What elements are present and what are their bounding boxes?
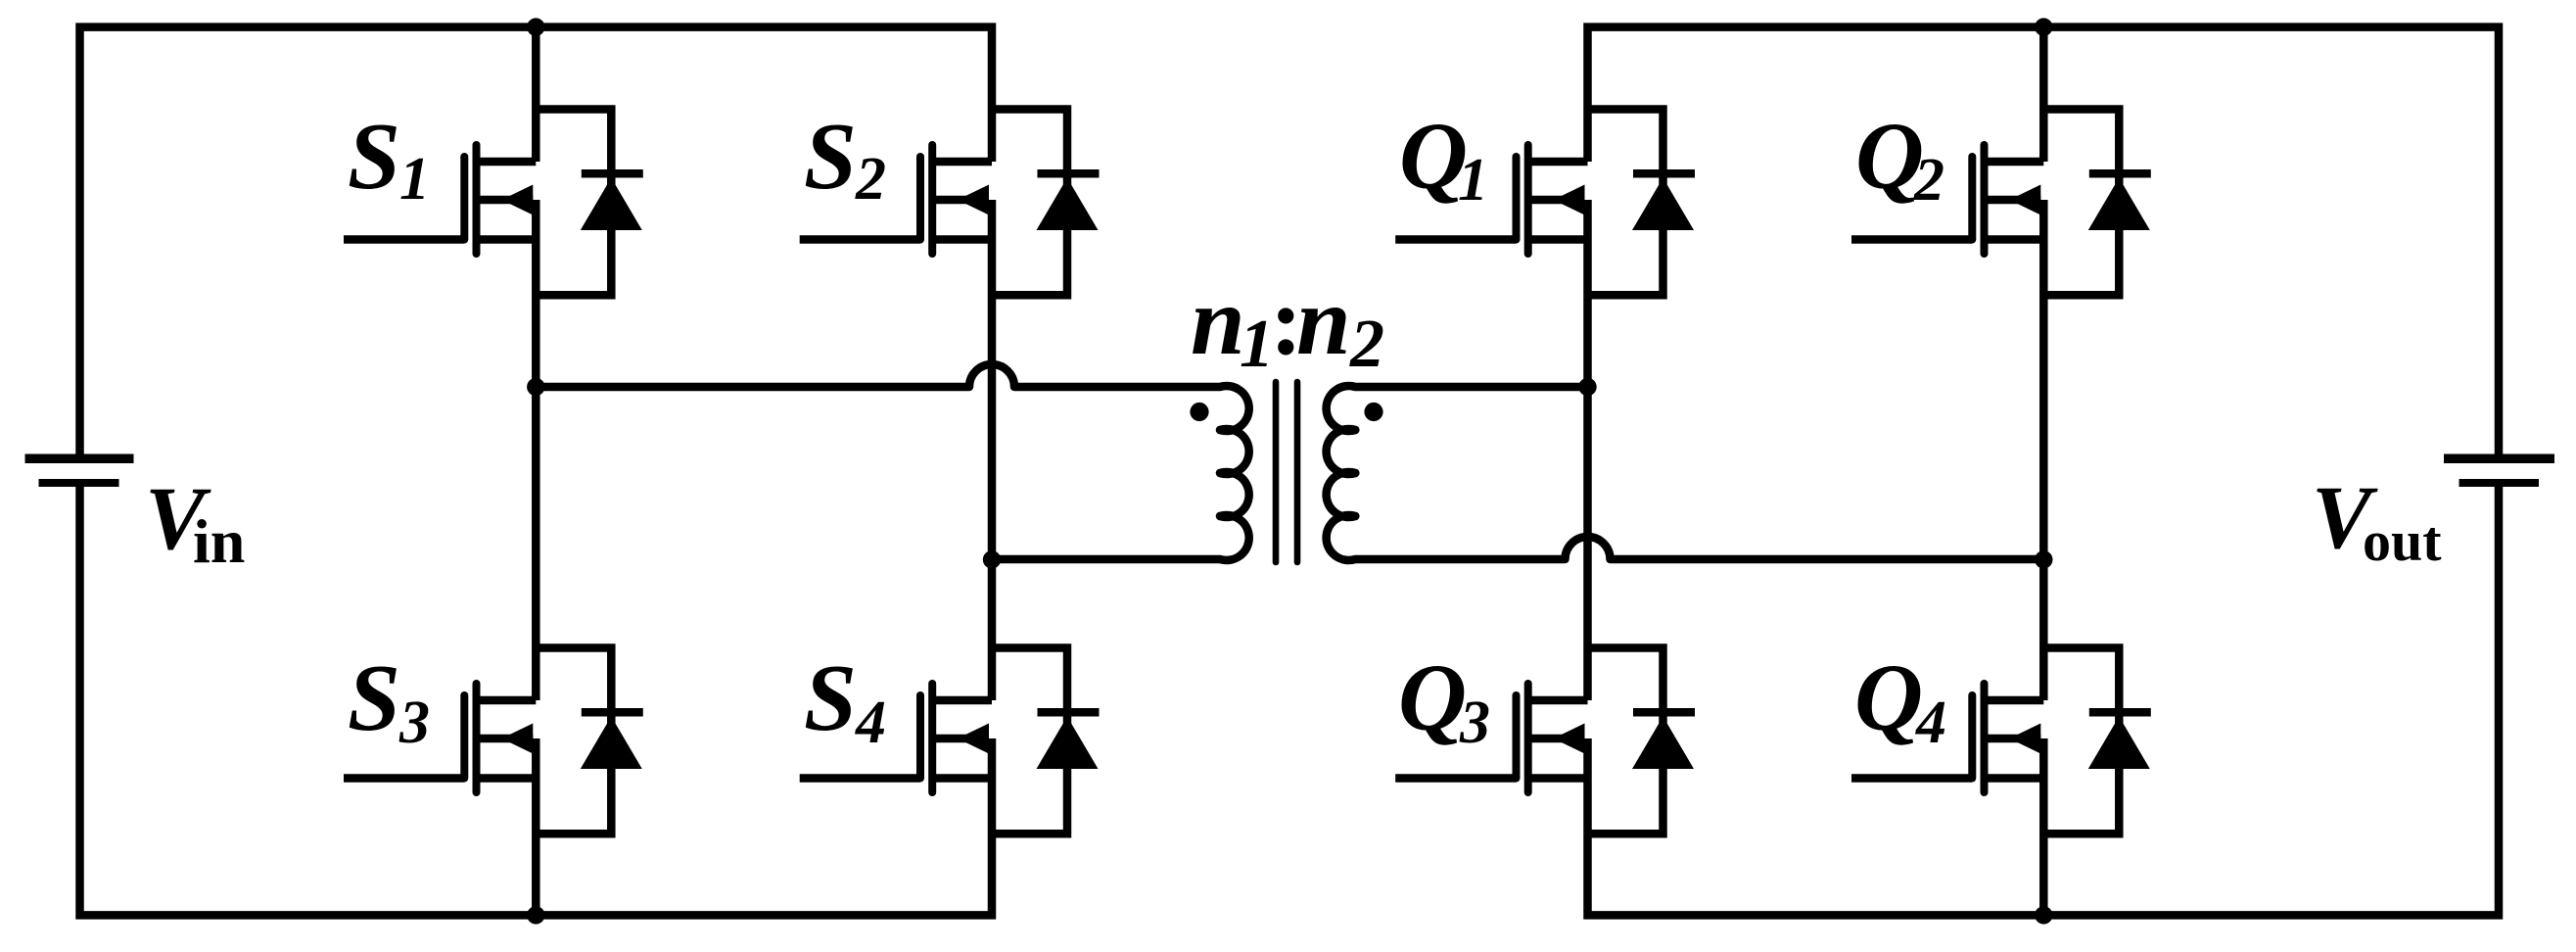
node B junction (S2-S4 midpoint) bbox=[983, 550, 1001, 568]
svg-text:S: S bbox=[804, 104, 857, 209]
wire: right outer loop top (Vout+ rail: Q1-leg top, top bus, right vertical) bbox=[1588, 27, 2500, 458]
wire: left outer loop top (Vin+ rail: left vertical, top bus, S2-leg top) bbox=[80, 27, 993, 458]
transformer T1 secondary winding (with wire hop over Q1 leg) bbox=[1327, 386, 2044, 560]
svg-text:1: 1 bbox=[1240, 307, 1274, 382]
svg-text:2: 2 bbox=[855, 146, 886, 213]
wire: right outer loop bottom (Vout- rail: Q3-leg bottom, bottom bus, right vertical) bbox=[1588, 483, 2500, 915]
transformer T1 primary dot bbox=[1190, 403, 1208, 421]
transistor Q1 (MOSFET) bbox=[1395, 145, 1587, 254]
label Q1 bbox=[1399, 104, 1488, 214]
transformer T1 secondary dot bbox=[1364, 403, 1382, 421]
node A junction (S1-S3 midpoint) bbox=[527, 378, 544, 396]
transformer T1 core bbox=[1276, 382, 1297, 562]
svg-text:in: in bbox=[193, 506, 245, 576]
transistor S2 (MOSFET) bbox=[800, 145, 992, 254]
svg-text:S: S bbox=[348, 104, 400, 209]
svg-text:2: 2 bbox=[1349, 307, 1384, 382]
svg-text:3: 3 bbox=[1459, 690, 1490, 756]
label Vin bbox=[145, 468, 245, 576]
svg-text:3: 3 bbox=[398, 690, 430, 756]
body diode of Q4 bbox=[2043, 648, 2151, 834]
label n1:n2 (turns ratio) bbox=[1191, 266, 1384, 382]
wire: Q4 leg bottom segment bbox=[2039, 738, 2048, 915]
body diode of Q2 bbox=[2043, 110, 2151, 296]
svg-text:Q: Q bbox=[1854, 645, 1923, 750]
svg-text:out: out bbox=[2363, 509, 2442, 573]
transistor Q2 (MOSFET) bbox=[1851, 145, 2043, 254]
label Q4 bbox=[1854, 645, 1946, 756]
label S2 bbox=[804, 104, 886, 213]
svg-text:S: S bbox=[348, 645, 400, 750]
svg-text:1: 1 bbox=[1458, 147, 1488, 214]
svg-text:1: 1 bbox=[399, 146, 430, 213]
node: S1 leg / top bus bbox=[527, 18, 544, 35]
label S1 bbox=[348, 104, 430, 213]
body diode of Q3 bbox=[1588, 648, 1696, 834]
svg-text:2: 2 bbox=[1913, 147, 1944, 214]
wire: Q2-Q4 leg middle segment (node D) bbox=[2039, 200, 2048, 700]
wire: Q1-Q3 leg middle segment (node C) bbox=[1583, 200, 1592, 700]
label S3 bbox=[348, 645, 430, 756]
label Q3 bbox=[1398, 645, 1490, 756]
svg-text:4: 4 bbox=[1915, 690, 1946, 756]
node: Q2 leg / top bus bbox=[2035, 18, 2052, 35]
wire: S2-S4 leg middle segment (node B) bbox=[988, 200, 997, 700]
node C junction (Q1-Q3 midpoint) bbox=[1578, 378, 1596, 396]
transistor S3 (MOSFET) bbox=[344, 684, 536, 792]
transistor Q3 (MOSFET) bbox=[1395, 684, 1587, 792]
label Vout bbox=[2312, 467, 2442, 573]
node: S3 leg / bottom bus bbox=[527, 906, 544, 924]
svg-text:n: n bbox=[1296, 266, 1351, 375]
transistor S1 (MOSFET) bbox=[344, 145, 536, 254]
transistor S4 (MOSFET) bbox=[800, 684, 992, 792]
label Q2 bbox=[1855, 104, 1944, 214]
body diode of Q1 bbox=[1588, 110, 1696, 296]
svg-text:4: 4 bbox=[855, 690, 886, 756]
battery Vin bbox=[25, 458, 134, 483]
transformer T1 primary winding (with wire hop over S2 leg) bbox=[536, 364, 1248, 560]
battery Vout bbox=[2444, 458, 2554, 483]
body diode of S2 bbox=[992, 110, 1100, 296]
transistor Q4 (MOSFET) bbox=[1851, 684, 2043, 792]
node D junction (Q2-Q4 midpoint) bbox=[2035, 550, 2052, 568]
label S4 bbox=[804, 645, 886, 756]
wire: S3 leg bottom segment bbox=[532, 738, 540, 915]
svg-text:Q: Q bbox=[1398, 645, 1467, 750]
svg-text:S: S bbox=[804, 645, 857, 750]
svg-text:n: n bbox=[1191, 266, 1245, 375]
wire: S1-S3 leg middle segment (node A) bbox=[532, 200, 540, 700]
node: Q4 leg / bottom bus bbox=[2035, 906, 2052, 924]
wire: left outer loop bottom (Vin- rail: left vertical, bottom bus, S4-leg bottom) bbox=[80, 483, 993, 915]
body diode of S1 bbox=[536, 110, 643, 296]
body diode of S4 bbox=[992, 648, 1100, 834]
body diode of S3 bbox=[536, 648, 643, 834]
wire: Q2 leg top segment bbox=[2039, 27, 2048, 162]
wire: S1 leg top segment bbox=[532, 27, 540, 162]
